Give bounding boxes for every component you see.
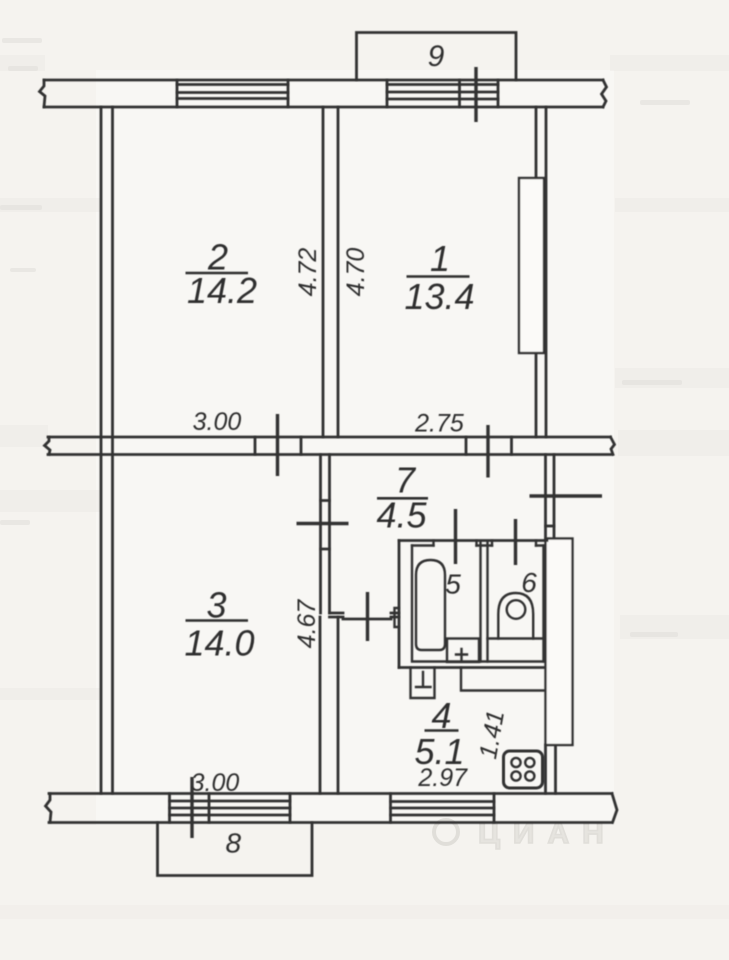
svg-text:4.72: 4.72: [294, 248, 322, 297]
svg-text:6: 6: [521, 567, 537, 598]
svg-text:2.75: 2.75: [414, 410, 464, 438]
svg-text:13.4: 13.4: [404, 276, 474, 317]
svg-text:4.5: 4.5: [376, 495, 427, 536]
svg-text:4.70: 4.70: [342, 248, 370, 297]
svg-text:4.67: 4.67: [293, 599, 321, 649]
svg-text:5: 5: [445, 569, 461, 600]
svg-text:9: 9: [428, 40, 445, 73]
svg-text:8: 8: [226, 828, 242, 859]
svg-text:3.00: 3.00: [191, 769, 240, 797]
svg-text:2.97: 2.97: [417, 764, 468, 792]
svg-text:3.00: 3.00: [193, 408, 242, 436]
svg-text:14.0: 14.0: [184, 623, 254, 664]
svg-text:14.2: 14.2: [187, 270, 257, 311]
svg-text:1: 1: [430, 238, 450, 279]
